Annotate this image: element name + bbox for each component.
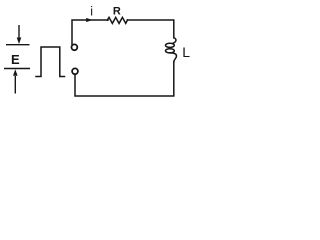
svg-text:L: L — [182, 44, 190, 60]
svg-text:E: E — [11, 52, 20, 67]
svg-text:R: R — [113, 6, 121, 18]
svg-text:i: i — [90, 5, 93, 19]
